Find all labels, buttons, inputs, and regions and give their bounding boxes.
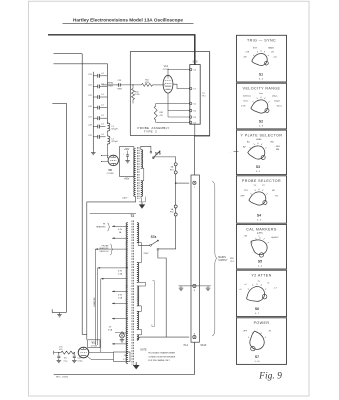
knob tick bbox=[252, 284, 255, 285]
T2 heater tap 5 bbox=[101, 278, 128, 280]
bottom rail wire bbox=[54, 342, 195, 374]
svg-text:S1: S1 bbox=[259, 72, 263, 76]
resistor R60 2.2M bbox=[132, 84, 140, 103]
resistor R61 470k bbox=[142, 80, 153, 87]
lamp MR1 bbox=[115, 331, 124, 338]
wire V11 anode right bbox=[89, 352, 114, 354]
resistor R62 47k bbox=[154, 104, 164, 123]
svg-text:S7: S7 bbox=[255, 355, 259, 359]
svg-text:(μSEC: (μSEC bbox=[257, 232, 264, 234]
svg-text:-IN: -IN bbox=[271, 52, 274, 54]
SK9 pin C5 bbox=[189, 102, 196, 105]
svg-text:CV138: CV138 bbox=[91, 346, 98, 348]
svg-text:6·3V: 6·3V bbox=[118, 229, 123, 231]
SK9 pin C9 bbox=[189, 121, 196, 124]
svg-text:Fig. 9: Fig. 9 bbox=[258, 372, 282, 382]
ground chassis below bracket bbox=[57, 312, 62, 317]
V8 pin stubs bbox=[101, 155, 109, 162]
svg-text:HEATERS: HEATERS bbox=[99, 247, 109, 250]
svg-text:0·5A: 0·5A bbox=[108, 329, 113, 332]
knob tick bbox=[266, 193, 267, 196]
junction and wire to pin C5 bbox=[156, 103, 190, 105]
svg-text:Hartley Electronovisions Model: Hartley Electronovisions Model 13A Oscil… bbox=[73, 17, 183, 22]
svg-text:+60V: +60V bbox=[124, 149, 130, 151]
svg-text:L: L bbox=[194, 187, 195, 189]
link text left of CAL panel bbox=[230, 258, 235, 263]
svg-text:3A,: 3A, bbox=[171, 208, 174, 211]
knob tick bbox=[260, 97, 262, 98]
wire V12 cathode to pin C6 bbox=[168, 93, 190, 111]
ground right of PL2 bbox=[206, 286, 211, 291]
wire T1 top to switch S7b bbox=[141, 146, 151, 151]
label 6.3V 3A bbox=[118, 229, 123, 234]
T2 bottom winding to PL2 pin N wire bbox=[137, 337, 189, 340]
knob tick bbox=[260, 284, 263, 285]
svg-text:0.1: 0.1 bbox=[101, 94, 104, 96]
svg-text:PROBE: PROBE bbox=[101, 245, 109, 247]
transformer T2 primary winding bbox=[126, 223, 128, 364]
svg-text:−50c/s: −50c/s bbox=[276, 106, 282, 108]
knob tick bbox=[252, 333, 255, 334]
svg-text:METAL: METAL bbox=[107, 82, 114, 85]
T2 winding step 1 bbox=[137, 243, 142, 263]
knob tick bbox=[265, 147, 266, 150]
knob tick bbox=[263, 238, 266, 239]
panel S5 CAL MARKERS bbox=[237, 224, 287, 269]
wire heater to pin C8 bbox=[168, 111, 190, 117]
label box V11 CV138 bbox=[88, 340, 100, 348]
knob S6 bbox=[244, 284, 268, 305]
T2 heater tap 4 bbox=[98, 267, 128, 269]
svg-text:S7b: S7b bbox=[155, 152, 161, 156]
wire S7a to PL2 pin N bbox=[158, 250, 166, 337]
svg-text:AC: AC bbox=[247, 141, 250, 144]
knob tick bbox=[256, 283, 258, 284]
panel S7 POWER bbox=[237, 318, 287, 365]
label MAINS SUPPLY bbox=[218, 256, 228, 262]
knob tick bbox=[251, 241, 252, 244]
svg-text:500ms/s: 500ms/s bbox=[243, 96, 251, 98]
knob tick bbox=[255, 238, 258, 239]
knob S4 bbox=[248, 191, 267, 206]
knob tick bbox=[251, 193, 252, 196]
T2 core bbox=[132, 221, 134, 365]
svg-text:0·1μ: 0·1μ bbox=[64, 361, 68, 363]
wire node B to capacitor ladder rail bbox=[54, 64, 108, 124]
svg-text:CAL MARKERS: CAL MARKERS bbox=[246, 228, 277, 232]
svg-text:+: + bbox=[123, 154, 124, 156]
capacitor C27 bbox=[88, 115, 107, 120]
wire S7b to fuse FS1 bbox=[153, 157, 175, 163]
switch S7a bbox=[150, 240, 159, 250]
wire T1 bottom right bbox=[139, 197, 146, 202]
knob tick bbox=[248, 336, 249, 339]
SK9 pin C6 bbox=[189, 109, 196, 112]
PL2 pin L bbox=[193, 181, 196, 188]
svg-text:(25μs: (25μs bbox=[272, 96, 277, 98]
svg-text:2·4A: 2·4A bbox=[118, 273, 123, 276]
svg-text:0.1: 0.1 bbox=[101, 115, 104, 117]
knob S7 bbox=[249, 330, 266, 351]
knob tick bbox=[264, 98, 267, 99]
svg-text:SK10: SK10 bbox=[200, 344, 207, 347]
knob tick bbox=[263, 51, 266, 52]
wire T2 to S7a bbox=[138, 243, 150, 246]
capacitor C58 bbox=[117, 80, 122, 91]
svg-text:S7a: S7a bbox=[151, 235, 157, 239]
panel S1 TRIG — SYNC bbox=[237, 35, 287, 82]
knob tick bbox=[256, 98, 259, 99]
knob S1 bbox=[251, 53, 268, 66]
svg-text:1ms: 1ms bbox=[259, 93, 263, 95]
wire node A vertical drop long bbox=[82, 54, 87, 335]
SK9 pin C4 bbox=[189, 68, 196, 71]
label HT HEATERS bbox=[96, 223, 110, 231]
svg-text:825μH: 825μH bbox=[112, 141, 118, 143]
ground inside supply box bbox=[125, 156, 130, 163]
wire R62 bottom to pin C9 bbox=[156, 121, 190, 123]
knob tick bbox=[268, 241, 269, 244]
screened lead dashed bbox=[152, 281, 155, 327]
wire R61 to V12 grid bbox=[153, 84, 164, 86]
svg-text:OFF: OFF bbox=[243, 330, 248, 332]
svg-text:PL1: PL1 bbox=[202, 96, 205, 98]
knob tick bbox=[248, 288, 249, 291]
label 4V 0.5A bbox=[108, 327, 113, 332]
wire node C long drop bbox=[52, 103, 66, 312]
knob tick bbox=[253, 144, 256, 145]
capacitor C26 bbox=[88, 105, 107, 110]
svg-text:825μH: 825μH bbox=[112, 129, 118, 131]
T2 secondary winding section 1 bbox=[137, 223, 139, 243]
wire second heater line bbox=[90, 212, 136, 214]
knob tick bbox=[256, 51, 259, 52]
knob tick bbox=[254, 190, 257, 191]
svg-text:47k: 47k bbox=[59, 349, 62, 351]
probe assembly box bbox=[130, 52, 209, 136]
svg-text:TRIG — SYNC: TRIG — SYNC bbox=[247, 39, 276, 43]
PL2 pin N bbox=[193, 333, 196, 338]
knob tick bbox=[262, 190, 265, 191]
switch S7b bbox=[150, 151, 160, 159]
T2 secondary winding section 3 bbox=[137, 286, 139, 306]
svg-text:6·3V: 6·3V bbox=[118, 270, 123, 272]
svg-text:OFF: OFF bbox=[240, 196, 245, 198]
svg-text:S3: S3 bbox=[256, 165, 260, 169]
component box right of V11 bbox=[114, 352, 131, 362]
knob tick bbox=[261, 144, 264, 145]
knob tick bbox=[259, 237, 261, 238]
svg-text:0.1: 0.1 bbox=[101, 105, 104, 107]
svg-text:TYPE 2: TYPE 2 bbox=[144, 130, 157, 134]
svg-text:3A,: 3A, bbox=[171, 166, 174, 169]
svg-text:0.1: 0.1 bbox=[101, 73, 104, 75]
svg-text:↑: ↑ bbox=[257, 328, 258, 331]
knob S3 bbox=[247, 145, 266, 160]
T2 heater tap 10 bbox=[112, 343, 128, 345]
T2 heater tap 3 bbox=[95, 248, 128, 250]
knob tick bbox=[260, 333, 263, 334]
svg-text:T2: T2 bbox=[130, 214, 134, 218]
T1 core bbox=[138, 147, 139, 199]
svg-text:V8: V8 bbox=[108, 168, 112, 172]
knob tick bbox=[265, 288, 266, 291]
svg-text:PROBE SELECTOR: PROBE SELECTOR bbox=[242, 179, 281, 183]
capacitor C72 to ground bbox=[73, 352, 83, 363]
pentode V12 CV138 bbox=[163, 75, 173, 93]
T2 heater tap 7 bbox=[112, 303, 128, 305]
svg-text:BM: BM bbox=[276, 149, 279, 151]
svg-text:VIA PLUG: VIA PLUG bbox=[99, 250, 109, 253]
svg-text:→: → bbox=[229, 152, 231, 154]
ground left of PL2 bbox=[179, 286, 184, 291]
wire FS1 to PL2 pin L junction bbox=[175, 174, 177, 205]
svg-text:S4: S4 bbox=[257, 214, 261, 218]
wire T1 bottom left to heater drop bbox=[87, 197, 136, 340]
T2 heater tap 2 bbox=[112, 237, 128, 239]
capacitor C71 to ground bbox=[57, 352, 67, 363]
label 6.3V 1.5A bbox=[118, 295, 123, 300]
transformer T1 primary winding bbox=[134, 149, 136, 197]
label TO PL1 bbox=[202, 93, 205, 98]
T2 winding step 4 bbox=[137, 329, 142, 334]
+60V supply box bbox=[119, 147, 133, 177]
heater bus wires bbox=[95, 249, 101, 352]
label V8 CV138 bbox=[107, 168, 114, 175]
svg-text:SUPPLY: SUPPLY bbox=[218, 259, 228, 262]
wire V12 screen to SK9 pin C7 bbox=[173, 84, 190, 88]
T2 heater tap 1 bbox=[112, 225, 128, 227]
svg-text:6·3V: 6·3V bbox=[118, 295, 123, 297]
knob tick bbox=[265, 336, 266, 339]
svg-text:VELOCITY RANGE: VELOCITY RANGE bbox=[243, 87, 281, 91]
svg-text:1·5S: 1·5S bbox=[241, 106, 246, 108]
mains brace bbox=[212, 181, 217, 336]
svg-text:-VE: -VE bbox=[243, 57, 247, 59]
wire bottom bracket of node C bbox=[52, 309, 66, 312]
T2 winding step 3 bbox=[137, 306, 142, 311]
svg-text:230V: 230V bbox=[143, 253, 149, 255]
svg-text:470k: 470k bbox=[145, 82, 149, 84]
label PROBE HEATERS VIA PLUG bbox=[99, 244, 113, 255]
svg-text:0·01μ: 0·01μ bbox=[78, 361, 83, 363]
wire V11 heater right bbox=[88, 357, 114, 360]
note box text bbox=[140, 349, 176, 362]
PL2 pin E bbox=[193, 284, 196, 292]
svg-text:FOR 230V MAINS ONLY: FOR 230V MAINS ONLY bbox=[148, 359, 170, 362]
capacitor ladder left rail bbox=[92, 72, 94, 151]
connector PL2 SK10 box bbox=[191, 175, 199, 342]
svg-text:5m/s: 5m/s bbox=[243, 100, 248, 102]
ground below C71 bbox=[57, 358, 62, 363]
knob tick bbox=[258, 189, 260, 190]
triode V11 bbox=[78, 347, 89, 358]
svg-text:A1A2: A1A2 bbox=[256, 138, 262, 141]
connector SK9 box bbox=[190, 65, 200, 125]
inductor L3 825uH bbox=[107, 123, 118, 131]
input terminal bbox=[54, 351, 58, 355]
svg-text:/4μSEC: /4μSEC bbox=[271, 237, 279, 239]
capacitor C24 bbox=[88, 83, 107, 88]
wire node A horizontal bbox=[54, 53, 83, 55]
knob S5 bbox=[247, 235, 270, 258]
wire C58 to R61 bbox=[122, 84, 142, 86]
svg-text:SET + 1500V: SET + 1500V bbox=[56, 377, 69, 379]
T2 heater tap 9 bbox=[121, 332, 128, 334]
wire V12 anode to SK9 pin C4 bbox=[168, 70, 190, 77]
SK9 pin C7 bbox=[189, 87, 196, 90]
knob tick bbox=[253, 101, 254, 104]
T1 secondary winding lower bbox=[141, 181, 143, 197]
svg-text:47k: 47k bbox=[160, 115, 163, 117]
knob tick bbox=[268, 101, 269, 104]
label METAL TRIM bbox=[107, 82, 114, 88]
svg-text:CONNECTIONS SHOWN ARE: CONNECTIONS SHOWN ARE bbox=[148, 355, 176, 358]
knob tick bbox=[250, 147, 251, 150]
knob tick bbox=[257, 143, 259, 144]
svg-text:+VE: +VE bbox=[245, 52, 250, 54]
T2 secondary winding section 5 bbox=[137, 335, 139, 340]
T2 winding step 2 bbox=[137, 282, 146, 286]
label V12 CV138 bbox=[163, 65, 170, 71]
knob tick bbox=[256, 332, 258, 333]
svg-text:−IN: −IN bbox=[274, 196, 278, 198]
wire choke to V8 grid bbox=[106, 144, 109, 158]
capacitor C23 bbox=[88, 73, 107, 78]
svg-text:S6: S6 bbox=[255, 307, 259, 311]
svg-text:TRIM: TRIM bbox=[108, 85, 113, 87]
svg-text:SK9: SK9 bbox=[193, 60, 198, 64]
svg-text:C47: C47 bbox=[78, 358, 81, 360]
ground below capacitor ladder bbox=[91, 151, 96, 155]
T1 winding jog bbox=[141, 168, 144, 180]
wire FS2 to switch S7a bbox=[159, 216, 176, 249]
svg-text:Y2 ATTEN: Y2 ATTEN bbox=[251, 274, 271, 278]
T2 secondary winding section 4 bbox=[137, 311, 139, 329]
label PROBE ASSEMBLY TYPE 2 bbox=[137, 126, 169, 134]
SK9 pin C8 bbox=[189, 116, 196, 119]
T2 core earth ground bbox=[133, 362, 140, 369]
svg-text:PL2: PL2 bbox=[184, 344, 189, 347]
panel S3 Y PLATE SELECTOR bbox=[237, 130, 287, 175]
svg-text:0.1: 0.1 bbox=[101, 134, 104, 136]
svg-text:2M: 2M bbox=[124, 355, 127, 357]
wire probe box right edge return bbox=[194, 52, 209, 175]
wire SK9 bottom drop bbox=[194, 124, 196, 136]
capacitor C25 bbox=[88, 94, 107, 99]
svg-text:PLUGS AND TRANSFORMER: PLUGS AND TRANSFORMER bbox=[148, 352, 175, 355]
label 6.3V 2.4A bbox=[118, 270, 123, 275]
panel S4 PROBE SELECTOR bbox=[237, 176, 287, 223]
capacitor C29 bbox=[88, 134, 105, 139]
knob tick bbox=[260, 50, 262, 51]
svg-text:−DBL: −DBL bbox=[275, 146, 281, 148]
svg-text:15k: 15k bbox=[64, 358, 67, 360]
fuse FS1 3A bbox=[170, 163, 177, 174]
wire earth line bbox=[179, 285, 211, 287]
svg-text:V12: V12 bbox=[164, 65, 169, 68]
svg-text:240V: 240V bbox=[122, 198, 128, 200]
svg-text:2.2M: 2.2M bbox=[135, 94, 140, 96]
svg-text:Y PLATE SELECTOR: Y PLATE SELECTOR bbox=[241, 133, 283, 137]
ground below lamp bbox=[120, 338, 125, 342]
panel S2 VELOCITY RANGE bbox=[237, 83, 287, 129]
wire junction to PL2 pin L bbox=[176, 182, 190, 184]
svg-text:0.1: 0.1 bbox=[101, 124, 104, 126]
knob tick bbox=[268, 54, 269, 57]
svg-text:V11: V11 bbox=[92, 340, 97, 344]
labels in component box bbox=[123, 355, 127, 361]
capacitor inside supply box bbox=[123, 151, 129, 157]
svg-text:1·7k: 1·7k bbox=[123, 359, 127, 361]
T2 heater tap 8 bbox=[112, 318, 128, 320]
svg-text:HEATERS: HEATERS bbox=[96, 225, 106, 228]
knob tick bbox=[253, 54, 254, 57]
inductor L4 825uH bbox=[107, 136, 118, 144]
T1 secondary winding upper bbox=[141, 150, 143, 169]
svg-text:/25μS: /25μS bbox=[274, 100, 280, 102]
capacitor C28 bbox=[88, 124, 105, 129]
svg-text:MAIN: MAIN bbox=[268, 46, 274, 49]
T2 secondary winding section 2 bbox=[137, 263, 139, 283]
svg-text:S5: S5 bbox=[258, 259, 262, 263]
triode V8 CV138 bbox=[108, 155, 118, 165]
label V11 bbox=[91, 340, 98, 347]
svg-text:TRIM: TRIM bbox=[117, 89, 122, 91]
link tick to S7 panel bbox=[229, 152, 238, 154]
svg-text:4 - 10: 4 - 10 bbox=[254, 361, 260, 363]
T2 heater tap 6 bbox=[112, 291, 128, 293]
resistor R70 47k bbox=[58, 346, 74, 354]
input wire from trimmer bbox=[102, 84, 118, 86]
svg-text:+60V: +60V bbox=[124, 178, 130, 180]
T1 ground earth bbox=[139, 197, 145, 209]
wire main EHT bus to SK9 bbox=[48, 35, 195, 65]
svg-text:S2: S2 bbox=[259, 119, 263, 123]
svg-text:ON: ON bbox=[244, 236, 248, 238]
svg-text:EXT: EXT bbox=[253, 47, 258, 49]
wire between chokes bbox=[106, 131, 108, 136]
fuse FS2 3A bbox=[170, 205, 177, 216]
knob S2 bbox=[250, 99, 269, 114]
panel S6 Y2 ATTEN bbox=[237, 270, 287, 316]
ground below C72 bbox=[72, 358, 77, 363]
svg-text:HEATERS: HEATERS bbox=[93, 297, 96, 307]
svg-text:CV138: CV138 bbox=[107, 173, 114, 175]
svg-text:YTD: YTD bbox=[244, 190, 249, 192]
svg-text:POWER: POWER bbox=[254, 321, 270, 325]
svg-text:NOTE: NOTE bbox=[140, 349, 147, 351]
svg-text:1·5A: 1·5A bbox=[118, 297, 123, 300]
